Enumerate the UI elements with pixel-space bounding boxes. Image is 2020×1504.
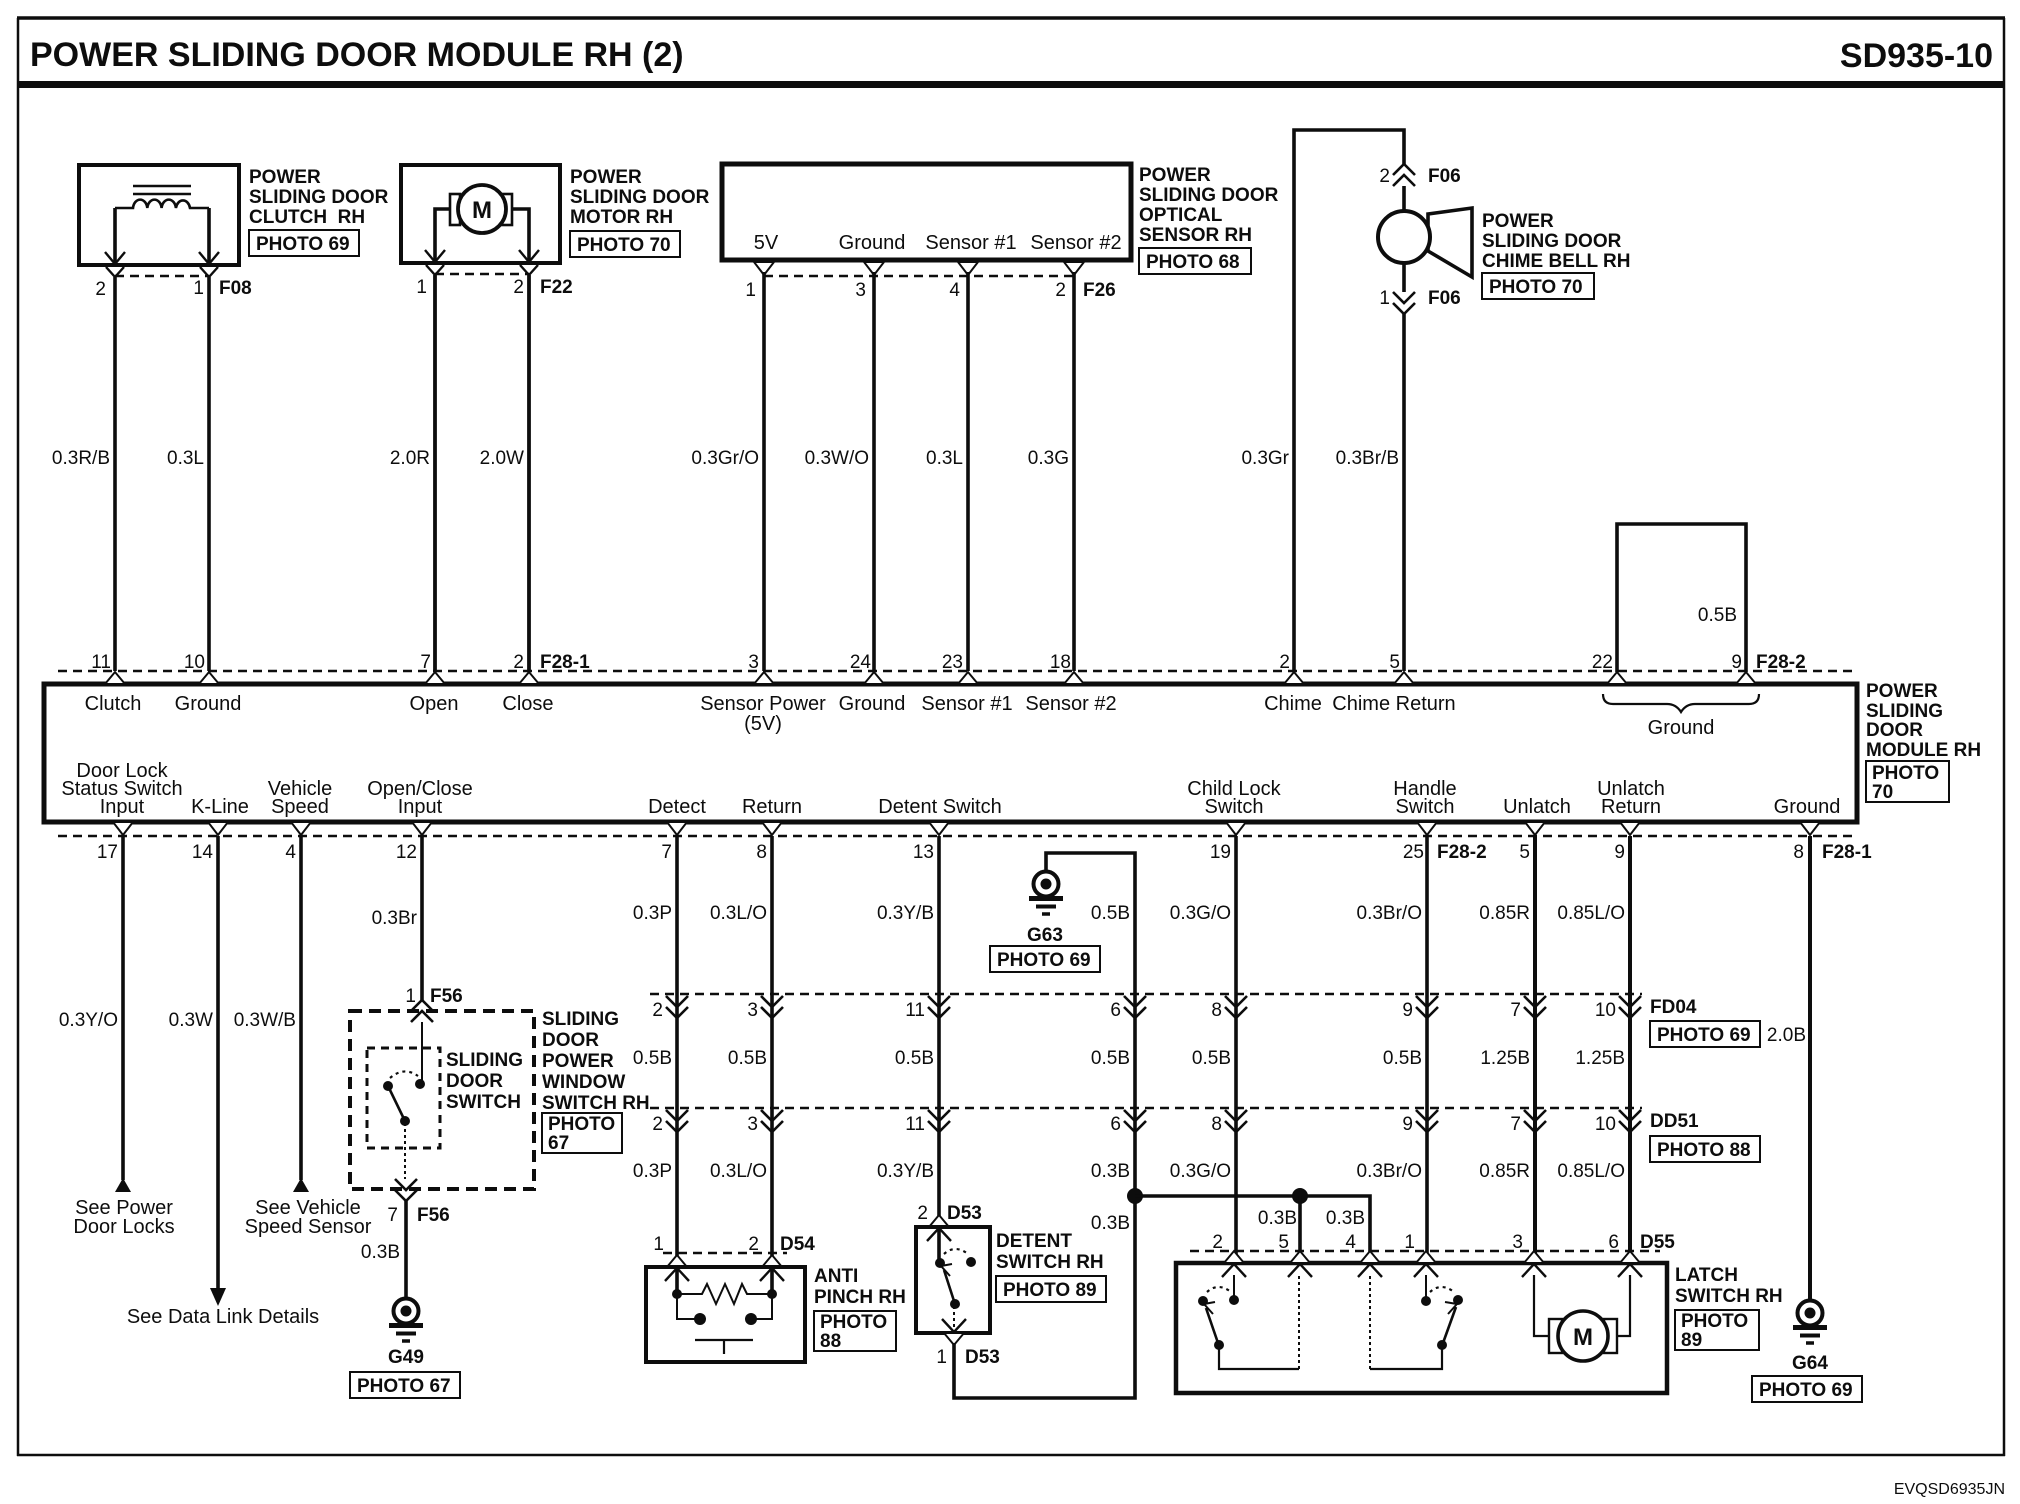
svg-text:6: 6 — [1110, 1000, 1121, 1021]
svg-text:D54: D54 — [780, 1234, 815, 1255]
svg-text:0.3Br: 0.3Br — [372, 908, 418, 929]
svg-text:0.3Y/O: 0.3Y/O — [59, 1010, 118, 1031]
svg-text:Ground: Ground — [1648, 717, 1715, 739]
svg-text:Unlatch: Unlatch — [1503, 796, 1571, 818]
svg-text:PHOTO 89: PHOTO 89 — [1003, 1280, 1097, 1301]
svg-text:7: 7 — [1510, 1114, 1521, 1135]
svg-text:PHOTO 88: PHOTO 88 — [1657, 1140, 1751, 1161]
svg-text:F56: F56 — [417, 1205, 450, 1226]
svg-text:0.3B: 0.3B — [1326, 1208, 1365, 1229]
svg-text:Ground: Ground — [175, 693, 242, 715]
svg-text:2: 2 — [748, 1234, 759, 1255]
svg-text:Switch: Switch — [1205, 796, 1264, 818]
svg-text:F28-2: F28-2 — [1437, 842, 1487, 863]
svg-text:11: 11 — [91, 652, 111, 673]
svg-text:SWITCH RH: SWITCH RH — [542, 1093, 650, 1114]
svg-text:See Data Link Details: See Data Link Details — [127, 1306, 319, 1328]
svg-text:1: 1 — [653, 1234, 664, 1255]
latch switch label LATCH SWITCH RH — [1675, 1265, 1783, 1307]
chime bell RH symbol — [1378, 208, 1472, 277]
off-page arrow See Vehicle Speed Sensor — [293, 1178, 309, 1192]
wire 0.3L clutch pin1 to module pin 10 — [207, 277, 211, 671]
svg-text:0.3L: 0.3L — [926, 448, 963, 469]
wire 0.3W/B module pin 4 to vehicle speed sensor — [299, 836, 303, 1180]
svg-text:PHOTO 69: PHOTO 69 — [1759, 1380, 1853, 1401]
optical sensor PHOTO 68 box — [1139, 248, 1251, 274]
svg-text:SD935-10: SD935-10 — [1840, 37, 1993, 75]
svg-text:10: 10 — [184, 652, 205, 673]
svg-text:9: 9 — [1614, 842, 1625, 863]
svg-text:0.85L/O: 0.85L/O — [1557, 1161, 1625, 1182]
svg-text:Detent Switch: Detent Switch — [878, 796, 1001, 818]
svg-text:23: 23 — [942, 652, 963, 673]
svg-text:D53: D53 — [947, 1203, 982, 1224]
svg-text:POWER: POWER — [570, 167, 642, 188]
svg-text:PHOTO 69: PHOTO 69 — [256, 234, 350, 255]
svg-text:F06: F06 — [1428, 166, 1461, 187]
optical sensor label POWER SLIDING DOOR OPTICAL SENSOR RH — [1139, 165, 1279, 246]
svg-text:2: 2 — [513, 277, 524, 298]
wire 0.3Br module pin 12 to sliding door switch — [420, 836, 424, 1000]
module PHOTO 70 box — [1866, 761, 1949, 803]
svg-text:Clutch: Clutch — [85, 693, 142, 715]
svg-text:0.3B: 0.3B — [1091, 1213, 1130, 1234]
anti pinch resistor R1 — [672, 1284, 777, 1304]
svg-text:DETENT: DETENT — [996, 1231, 1072, 1252]
svg-text:3: 3 — [747, 1114, 758, 1135]
window switch label SLIDING DOOR POWER WINDOW SWITCH RH — [542, 1009, 650, 1114]
motor M1 POWER SLIDING DOOR MOTOR RH box — [401, 165, 560, 263]
svg-text:89: 89 — [1681, 1330, 1702, 1351]
svg-text:7: 7 — [1510, 1000, 1521, 1021]
svg-text:19: 19 — [1210, 842, 1231, 863]
svg-text:0.85R: 0.85R — [1479, 903, 1530, 924]
connector F06 pin 1 chevrons — [1393, 292, 1415, 314]
svg-text:0.3L/O: 0.3L/O — [710, 903, 767, 924]
svg-text:DOOR: DOOR — [446, 1071, 503, 1092]
module U2 POWER SLIDING DOOR MODULE RH box — [44, 684, 1857, 822]
svg-text:8: 8 — [1211, 1000, 1222, 1021]
svg-text:Speed: Speed — [271, 796, 329, 818]
svg-text:PHOTO: PHOTO — [1681, 1311, 1748, 1332]
svg-text:0.5B: 0.5B — [895, 1048, 934, 1069]
svg-text:2.0R: 2.0R — [390, 448, 430, 469]
svg-text:F08: F08 — [219, 278, 252, 299]
chime bell label POWER SLIDING DOOR CHIME BELL RH — [1482, 211, 1630, 272]
svg-text:3: 3 — [748, 652, 759, 673]
svg-text:8: 8 — [756, 842, 767, 863]
svg-text:0.85L/O: 0.85L/O — [1557, 903, 1625, 924]
svg-text:7: 7 — [661, 842, 672, 863]
svg-text:7: 7 — [387, 1205, 398, 1226]
svg-text:1: 1 — [416, 277, 427, 298]
svg-text:0.3Gr: 0.3Gr — [1241, 448, 1289, 469]
svg-text:88: 88 — [820, 1331, 841, 1352]
svg-text:70: 70 — [1872, 782, 1893, 803]
svg-text:4: 4 — [949, 280, 960, 301]
svg-text:SWITCH: SWITCH — [446, 1092, 521, 1113]
module name POWER SLIDING DOOR MODULE RH — [1866, 681, 1981, 761]
wire 0.3B drop to latch pin 5 — [1298, 1196, 1302, 1263]
anti pinch label ANTI PINCH RH — [814, 1266, 906, 1308]
svg-text:POWER: POWER — [249, 167, 321, 188]
svg-text:0.3P: 0.3P — [633, 1161, 672, 1182]
svg-text:F56: F56 — [430, 986, 463, 1007]
anti pinch PHOTO 88 box — [814, 1311, 896, 1352]
svg-text:2: 2 — [513, 652, 524, 673]
svg-text:F28-2: F28-2 — [1756, 652, 1806, 673]
connector DD51 pin numbers — [652, 1114, 1616, 1135]
svg-text:POWER: POWER — [1139, 165, 1211, 186]
svg-text:1: 1 — [745, 280, 756, 301]
svg-text:0.3R/B: 0.3R/B — [52, 448, 110, 469]
svg-text:0.3Br/B: 0.3Br/B — [1336, 448, 1399, 469]
svg-text:0.3G/O: 0.3G/O — [1170, 903, 1231, 924]
svg-text:0.5B: 0.5B — [728, 1048, 767, 1069]
svg-text:PHOTO: PHOTO — [548, 1114, 615, 1135]
svg-text:F26: F26 — [1083, 280, 1116, 301]
svg-text:Ground: Ground — [839, 693, 906, 715]
svg-text:22: 22 — [1592, 652, 1613, 673]
svg-text:1.25B: 1.25B — [1575, 1048, 1625, 1069]
svg-text:SLIDING: SLIDING — [1866, 701, 1943, 722]
wire 0.3W module pin 14 to data link — [216, 836, 220, 1290]
svg-text:CHIME BELL RH: CHIME BELL RH — [1482, 251, 1630, 272]
svg-text:Ground: Ground — [839, 232, 906, 254]
svg-text:SLIDING: SLIDING — [446, 1050, 523, 1071]
connector D55 pin numbers — [1212, 1232, 1675, 1253]
connector F08 pin 2 symbol — [105, 252, 125, 277]
svg-text:1: 1 — [405, 986, 416, 1007]
svg-text:PHOTO 70: PHOTO 70 — [577, 235, 671, 256]
svg-text:PHOTO 70: PHOTO 70 — [1489, 277, 1583, 298]
connector D53 pin 2 label — [917, 1203, 981, 1224]
G63 PHOTO 69 box — [990, 946, 1100, 972]
wire 0.3G optical pin2 to module pin 18 — [1072, 272, 1076, 671]
svg-text:13: 13 — [913, 842, 934, 863]
DD51 PHOTO 88 box — [1650, 1136, 1760, 1162]
sliding door switch label — [446, 1050, 523, 1113]
svg-text:0.5B: 0.5B — [1383, 1048, 1422, 1069]
sliding door power window switch RH outer dashed box — [350, 1011, 534, 1189]
svg-text:0.3B: 0.3B — [1258, 1208, 1297, 1229]
svg-text:Return: Return — [1601, 796, 1661, 818]
connector F56 pin 7 chevrons — [395, 1179, 417, 1201]
latch switch SW4 (pins 1-4) — [1370, 1275, 1463, 1369]
svg-text:2: 2 — [95, 279, 106, 300]
svg-text:SLIDING DOOR: SLIDING DOOR — [249, 187, 389, 208]
svg-text:EVQSD6935JN: EVQSD6935JN — [1894, 1481, 2005, 1498]
svg-text:7: 7 — [420, 652, 431, 673]
svg-text:M: M — [1573, 1324, 1593, 1351]
svg-text:67: 67 — [548, 1133, 569, 1154]
svg-text:Open: Open — [410, 693, 459, 715]
svg-text:9: 9 — [1402, 1000, 1413, 1021]
svg-text:5: 5 — [1278, 1232, 1289, 1253]
svg-text:Sensor Power: Sensor Power — [700, 693, 826, 715]
svg-text:SWITCH RH: SWITCH RH — [996, 1252, 1104, 1273]
connector F08 pin 1 symbol — [199, 252, 219, 277]
svg-text:MODULE RH: MODULE RH — [1866, 740, 1981, 761]
svg-text:8: 8 — [1793, 842, 1804, 863]
wire 2.0B module pin 8 down to ground G64 — [1808, 836, 1812, 1300]
svg-text:14: 14 — [192, 842, 214, 863]
svg-text:2: 2 — [652, 1000, 663, 1021]
wire 0.3B switch pin7 to ground G49 — [404, 1201, 408, 1298]
module top pin numbers — [91, 652, 1805, 673]
svg-text:Door Locks: Door Locks — [73, 1216, 174, 1238]
svg-text:Detect: Detect — [648, 796, 706, 818]
svg-text:SLIDING DOOR: SLIDING DOOR — [1482, 231, 1622, 252]
connector F26 pin 3 terminal — [864, 262, 884, 275]
svg-text:0.3Br/O: 0.3Br/O — [1357, 1161, 1422, 1182]
wire 0.3L/O module pin 8 Return down to anti pinch — [770, 836, 774, 1294]
wire 0.3Gr/O optical pin1 to module pin 3 — [762, 272, 766, 671]
svg-text:4: 4 — [1345, 1232, 1356, 1253]
wire 0.3Y/O module pin 17 to power door locks — [121, 836, 125, 1180]
sliding door switch SW1 — [383, 1022, 425, 1179]
svg-text:0.3P: 0.3P — [633, 903, 672, 924]
connector D55 pin terminals — [1222, 1251, 1642, 1277]
connector D54 pin 2 terminal — [760, 1255, 784, 1281]
svg-text:18: 18 — [1050, 652, 1071, 673]
connector F26 pin 4 terminal — [958, 262, 978, 275]
svg-text:8: 8 — [1211, 1114, 1222, 1135]
wire 0.5B ground G63 over and down — [1046, 853, 1135, 1196]
svg-text:1: 1 — [936, 1347, 947, 1368]
detent switch PHOTO 89 box — [996, 1276, 1106, 1302]
connector D53 pin 1 terminal — [944, 1333, 964, 1345]
module bottom pin terminals (hollow triangles) — [113, 822, 1820, 835]
svg-text:ANTI: ANTI — [814, 1266, 858, 1287]
junction node A — [1127, 1188, 1143, 1204]
wire 0.5B loop module pins 22 to 9 — [1617, 524, 1746, 672]
connector FD04 pin chevrons — [666, 996, 1641, 1018]
svg-text:0.5B: 0.5B — [1192, 1048, 1231, 1069]
svg-text:9: 9 — [1731, 652, 1742, 673]
svg-text:G63: G63 — [1027, 925, 1063, 946]
connector F26 dashed line — [764, 275, 1074, 278]
connector D54 dashed line — [663, 1252, 787, 1255]
svg-text:Return: Return — [742, 796, 802, 818]
connector F26 pin 2 terminal — [1064, 262, 1084, 275]
svg-text:Sensor #2: Sensor #2 — [1025, 693, 1116, 715]
connector F28 bottom dashed line — [58, 835, 1857, 838]
connector F26 labels — [745, 280, 1115, 301]
optical sensor U1 POWER SLIDING DOOR OPTICAL SENSOR RH box — [722, 164, 1131, 260]
connector F06 pin 2 chevrons — [1393, 164, 1415, 186]
svg-text:0.3B: 0.3B — [1091, 1161, 1130, 1182]
wire 0.3B detent pin1 down right and up to junction — [954, 1196, 1135, 1398]
svg-text:K-Line: K-Line — [191, 796, 249, 818]
svg-text:9: 9 — [1402, 1114, 1413, 1135]
latch motor M2 — [1534, 1275, 1630, 1361]
svg-text:0.5B: 0.5B — [633, 1048, 672, 1069]
svg-text:5: 5 — [1389, 652, 1400, 673]
svg-text:0.3Br/O: 0.3Br/O — [1357, 903, 1422, 924]
module top terminal labels — [85, 693, 1456, 735]
G49 PHOTO 67 box — [350, 1372, 460, 1398]
motor label POWER SLIDING DOOR MOTOR RH — [570, 167, 710, 228]
svg-text:0.5B: 0.5B — [1091, 903, 1130, 924]
svg-text:Sensor #2: Sensor #2 — [1030, 232, 1121, 254]
connector F22 labels — [416, 277, 572, 298]
connector F22 pin 2 symbol — [519, 250, 539, 275]
svg-text:(5V): (5V) — [744, 713, 782, 735]
module top pin terminals (hollow triangles) — [105, 672, 1756, 684]
module bottom terminal labels — [61, 760, 1840, 818]
svg-text:0.3W: 0.3W — [169, 1010, 213, 1031]
window switch PHOTO 67 box — [542, 1113, 622, 1154]
G64 PHOTO 69 box — [1752, 1376, 1862, 1402]
svg-text:0.5B: 0.5B — [1698, 605, 1737, 626]
wire 0.3G/O module pin 19 down to latch switch — [1234, 836, 1238, 1263]
svg-text:2.0B: 2.0B — [1767, 1025, 1806, 1046]
svg-text:Input: Input — [100, 796, 145, 818]
svg-text:Sensor #1: Sensor #1 — [925, 232, 1016, 254]
svg-text:25: 25 — [1403, 842, 1424, 863]
svg-text:SLIDING: SLIDING — [542, 1009, 619, 1030]
wire chime bell feed — [1402, 186, 1406, 212]
svg-text:POWER: POWER — [542, 1051, 614, 1072]
connector F56 pin 1 chevrons — [411, 1000, 433, 1022]
svg-text:POWER: POWER — [1482, 211, 1554, 232]
svg-text:Close: Close — [502, 693, 553, 715]
svg-text:0.5B: 0.5B — [1091, 1048, 1130, 1069]
svg-text:2: 2 — [652, 1114, 663, 1135]
wire 2.0R motor pin1 to module pin 7 — [433, 275, 437, 671]
motor PHOTO 70 box — [570, 231, 680, 257]
svg-text:0.3Gr/O: 0.3Gr/O — [691, 448, 759, 469]
connector F22 pin 1 symbol — [425, 250, 445, 275]
svg-text:3: 3 — [855, 280, 866, 301]
clutch label POWER SLIDING DOOR CLUTCH RH — [249, 167, 389, 228]
svg-text:Chime: Chime — [1264, 693, 1322, 715]
svg-text:PINCH RH: PINCH RH — [814, 1287, 906, 1308]
svg-text:DOOR: DOOR — [1866, 720, 1923, 741]
connector F22 dashed line — [435, 273, 529, 276]
FD04 PHOTO 69 box — [1650, 1021, 1760, 1047]
svg-text:2.0W: 2.0W — [480, 448, 524, 469]
svg-text:2: 2 — [1279, 652, 1290, 673]
wire 0.3P module pin 7 Detect down to anti pinch — [675, 836, 679, 1294]
svg-text:0.3Y/B: 0.3Y/B — [877, 903, 934, 924]
svg-text:Input: Input — [398, 796, 443, 818]
wire 0.85L/O module pin 9 down to latch switch — [1628, 836, 1632, 1263]
svg-text:3: 3 — [747, 1000, 758, 1021]
svg-text:PHOTO: PHOTO — [820, 1312, 887, 1333]
svg-text:Switch: Switch — [1396, 796, 1455, 818]
sliding door switch inner dashed box — [367, 1048, 440, 1148]
svg-text:F28-1: F28-1 — [540, 652, 590, 673]
wire 0.3W/O optical pin3 to module pin 24 — [872, 272, 876, 671]
svg-text:PHOTO 67: PHOTO 67 — [357, 1376, 451, 1397]
svg-text:1.25B: 1.25B — [1480, 1048, 1530, 1069]
connector F28 top dashed line — [58, 670, 1852, 673]
svg-text:SWITCH RH: SWITCH RH — [1675, 1286, 1783, 1307]
svg-text:Ground: Ground — [1774, 796, 1841, 818]
svg-text:1: 1 — [1379, 288, 1390, 309]
svg-text:D55: D55 — [1640, 1232, 1675, 1253]
latch switch PHOTO 89 box — [1675, 1310, 1759, 1351]
svg-text:DOOR: DOOR — [542, 1030, 599, 1051]
off-page arrow See Data Link Details — [210, 1288, 226, 1306]
connector D54 pin numbers — [653, 1234, 815, 1255]
svg-text:6: 6 — [1608, 1232, 1619, 1253]
svg-text:MOTOR RH: MOTOR RH — [570, 207, 673, 228]
svg-text:5: 5 — [1519, 842, 1530, 863]
off-page arrow See Power Door Locks — [115, 1178, 131, 1192]
wire 0.85R module pin 5 down to latch switch — [1533, 836, 1537, 1263]
ground G49 symbol — [388, 1299, 424, 1369]
svg-text:3: 3 — [1512, 1232, 1523, 1253]
svg-text:Sensor #1: Sensor #1 — [921, 693, 1012, 715]
svg-text:0.3W/B: 0.3W/B — [234, 1010, 296, 1031]
svg-text:G49: G49 — [388, 1347, 424, 1368]
svg-text:1: 1 — [193, 278, 204, 299]
svg-text:F28-1: F28-1 — [1822, 842, 1872, 863]
svg-text:SLIDING DOOR: SLIDING DOOR — [1139, 185, 1279, 206]
svg-text:M: M — [472, 197, 492, 224]
svg-text:PHOTO 69: PHOTO 69 — [1657, 1025, 1751, 1046]
svg-text:0.3W/O: 0.3W/O — [805, 448, 869, 469]
svg-text:Speed Sensor: Speed Sensor — [245, 1216, 372, 1238]
svg-text:2: 2 — [1212, 1232, 1223, 1253]
svg-text:F06: F06 — [1428, 288, 1461, 309]
svg-text:D53: D53 — [965, 1347, 1000, 1368]
svg-text:2: 2 — [1055, 280, 1066, 301]
svg-text:12: 12 — [396, 842, 417, 863]
svg-text:POWER SLIDING DOOR MODULE RH (: POWER SLIDING DOOR MODULE RH (2) — [30, 36, 684, 74]
clutch L1 POWER SLIDING DOOR CLUTCH RH box — [79, 165, 239, 265]
svg-text:F22: F22 — [540, 277, 573, 298]
svg-text:10: 10 — [1595, 1000, 1616, 1021]
anti pinch switch contacts — [677, 1294, 772, 1354]
wire 0.3Br/B chime to module pin 5 — [1402, 314, 1406, 671]
svg-text:0.3B: 0.3B — [361, 1242, 400, 1263]
svg-text:0.3L/O: 0.3L/O — [710, 1161, 767, 1182]
svg-text:11: 11 — [905, 1000, 925, 1021]
svg-text:2: 2 — [1379, 166, 1390, 187]
connector FD04 pin numbers — [652, 1000, 1616, 1021]
svg-text:G64: G64 — [1792, 1353, 1828, 1374]
svg-text:4: 4 — [285, 842, 296, 863]
svg-text:POWER: POWER — [1866, 681, 1938, 702]
svg-text:10: 10 — [1595, 1114, 1616, 1135]
svg-text:5V: 5V — [754, 232, 779, 254]
svg-text:17: 17 — [97, 842, 118, 863]
connector DD51 dashed line — [650, 1107, 1642, 1110]
svg-text:DD51: DD51 — [1650, 1111, 1699, 1132]
svg-text:24: 24 — [850, 652, 872, 673]
svg-text:WINDOW: WINDOW — [542, 1072, 625, 1093]
module bottom pin numbers — [97, 842, 1872, 863]
connector D55 dashed line — [1190, 1250, 1660, 1253]
wire 0.3Br/O module pin 25 down to latch switch — [1425, 836, 1429, 1263]
svg-text:0.3L: 0.3L — [167, 448, 204, 469]
svg-text:CLUTCH RH: CLUTCH RH — [249, 207, 365, 228]
anti pinch RH box — [646, 1267, 805, 1362]
svg-text:PHOTO 69: PHOTO 69 — [997, 950, 1091, 971]
wire 0.3Gr module pin2(Chime) up and over to chime bell — [1294, 130, 1404, 671]
module ground brace (pins 22,9) — [1603, 694, 1759, 739]
svg-text:0.3G/O: 0.3G/O — [1170, 1161, 1231, 1182]
wire chime bell to F06 pin1 — [1402, 263, 1406, 292]
junction node B — [1292, 1188, 1308, 1204]
connector F26 pin 1 terminal — [754, 262, 774, 275]
svg-text:SLIDING DOOR: SLIDING DOOR — [570, 187, 710, 208]
detent switch SW2 — [935, 1249, 976, 1332]
